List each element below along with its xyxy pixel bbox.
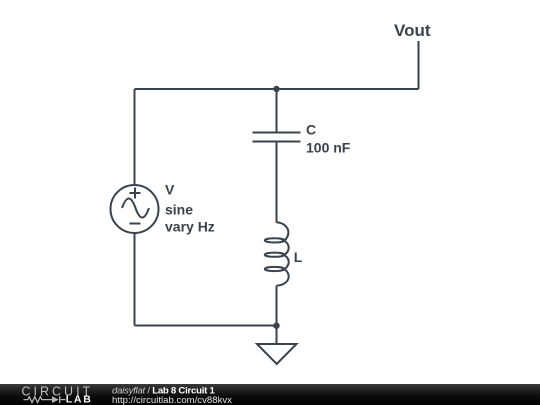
svg-text:V: V (165, 182, 175, 198)
svg-text:LAB: LAB (66, 394, 93, 405)
svg-text:vary Hz: vary Hz (165, 219, 215, 235)
svg-text:L: L (294, 249, 303, 265)
svg-text:sine: sine (165, 202, 193, 218)
svg-text:http://circuitlab.com/cv88kvx: http://circuitlab.com/cv88kvx (112, 395, 232, 405)
svg-text:C: C (306, 122, 316, 138)
svg-text:100 nF: 100 nF (306, 139, 351, 155)
svg-text:Vout: Vout (394, 21, 431, 40)
